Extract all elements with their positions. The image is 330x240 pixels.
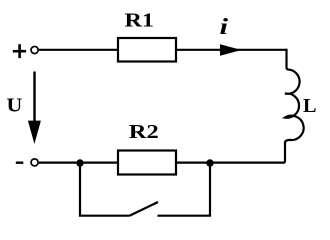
wire top right — [176, 49, 287, 51]
wire top left — [39, 49, 118, 51]
minus terminal label — [16, 161, 23, 163]
plus terminal label — [13, 44, 26, 58]
switch blade — [130, 202, 159, 216]
junction dot left — [76, 159, 83, 166]
svg-text:L: L — [303, 95, 317, 117]
resistor R2 — [118, 151, 176, 175]
voltage arrow U — [33, 72, 35, 125]
terminal node + (open circle) — [31, 46, 38, 53]
svg-text:i: i — [220, 14, 229, 39]
resistor R1 — [118, 38, 176, 62]
wire bottom — [39, 162, 285, 164]
terminal node - (open circle) — [31, 159, 38, 166]
inductor L — [285, 49, 304, 163]
wire switch branch right — [158, 163, 211, 216]
junction dot right — [206, 159, 213, 166]
wire switch branch left — [80, 163, 130, 216]
svg-text:U: U — [7, 95, 23, 117]
current arrow i — [220, 44, 242, 56]
svg-text:R1: R1 — [125, 10, 155, 32]
svg-text:R2: R2 — [129, 121, 159, 143]
